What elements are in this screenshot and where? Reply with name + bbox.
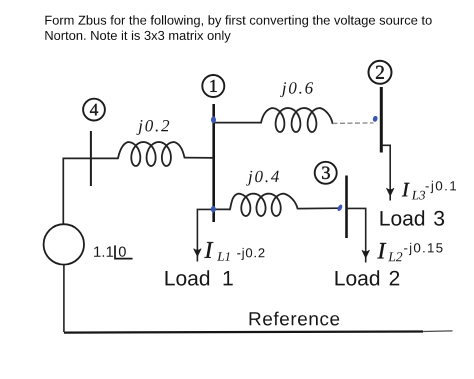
wire load 1 drop [197,209,213,261]
reference rail thin tail [423,330,453,333]
current label I_L1 [204,242,264,261]
title text line 2 [45,31,230,43]
current label I_L2 [377,243,442,261]
inductor j0.4 coil [230,194,298,216]
label Load 3 [381,210,445,225]
arrowhead load 3 [386,188,394,196]
bus bar node 2 [380,87,383,153]
wire bus 1 to j0.4 [214,208,230,210]
wire load 3 drop [381,145,390,200]
arrowhead load 1 [194,249,202,257]
wire source down to reference [63,265,65,332]
value label j0.4 [246,171,279,186]
wire load 2 drop [347,208,366,262]
current source circle [44,224,84,264]
node 4 circle [83,99,105,121]
source value label 1.1 angle 0 [94,245,132,258]
bus bar node 3 [345,176,348,239]
title text line 1 [45,15,431,27]
arrowhead load 2 [362,250,370,258]
junction dot bus1 to j0.4 [211,206,216,213]
wire j0.4 to bus 3 [298,207,339,209]
junction dot bus1 to j0.6 [211,116,216,123]
wire from current source up to j0.2 corner [63,158,118,224]
value label j0.6 [280,82,313,97]
node 3 circle [315,162,337,184]
bus bar node 4 [90,131,92,186]
junction dot j0.4 to bus3 [336,204,343,212]
inductor j0.6 coil [261,108,333,132]
wire bus 1 to j0.6 [215,122,262,124]
wire j0.2 to bus 1 [185,157,214,159]
label Load 1 [166,270,233,285]
value label j0.2 [136,120,169,135]
inductor j0.2 coil [118,142,185,166]
junction dot j0.6 to bus2 [372,115,378,122]
label Load 2 [336,270,400,285]
reference rail [64,332,423,333]
bus bar node 1 [212,104,215,222]
node 2 circle [369,61,392,84]
current label I_L3 [402,181,456,200]
node 1 circle [202,75,224,97]
faint wire j0.6 to bus 2 [333,122,374,125]
label Reference [250,312,340,326]
